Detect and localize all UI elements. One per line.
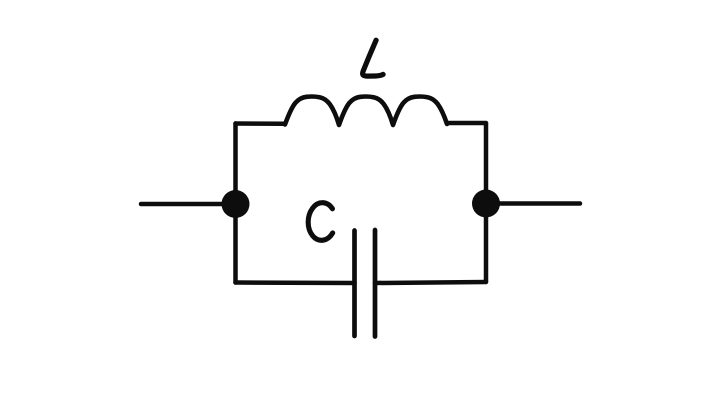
- wire left lead: [141, 202, 235, 207]
- wire top-left segment: [236, 121, 286, 126]
- wire right lead: [486, 201, 580, 206]
- node right junction: [472, 190, 500, 218]
- label C: [307, 202, 334, 241]
- capacitor C: [355, 230, 376, 337]
- wire left vertical branch: [233, 124, 238, 283]
- inductor L: [285, 96, 447, 125]
- wire top-right segment: [448, 121, 487, 126]
- wire bottom-left segment: [236, 280, 355, 285]
- node left junction: [222, 190, 250, 218]
- label L: [363, 40, 383, 76]
- wire right vertical branch: [484, 124, 489, 282]
- wire bottom-right segment: [375, 282, 486, 283]
